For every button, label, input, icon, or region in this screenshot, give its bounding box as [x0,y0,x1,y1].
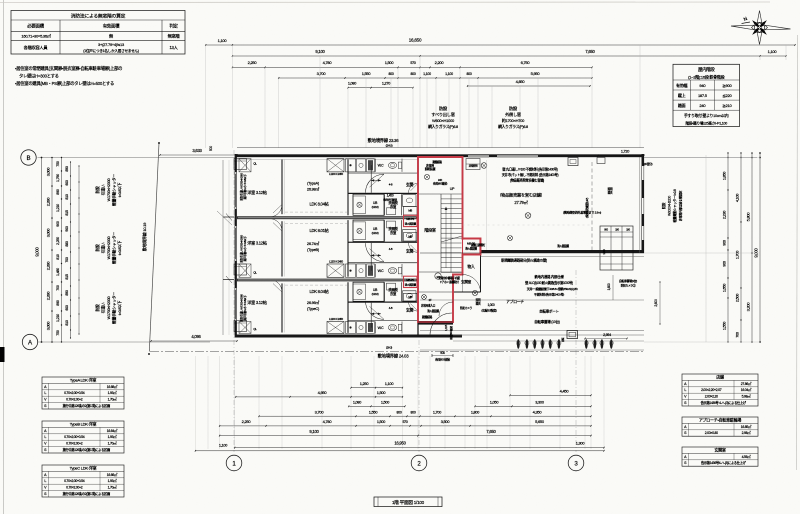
bottom dim row C left [349,405,405,407]
red mb boxes outline emphasis [404,221,418,233]
top wall window openings store [468,154,489,157]
grid circle 3 [568,455,584,471]
unit TypeC partition walls [281,283,283,332]
unit TypeB fixture row partitions [375,264,377,277]
balcony AC boxes [234,159,247,170]
unit TypeA floor edge line [285,211,347,213]
unit TypeC entry door arc [409,302,419,312]
left dimension chains [41,158,43,343]
site boundary bottom with label [150,351,644,353]
unit TypeC kitchen counter [327,321,344,333]
grid circle 2 [411,455,427,471]
fire code table [11,11,185,55]
bottom dim row G [235,447,604,449]
grid circle A [22,334,37,349]
bottom dim row E [220,425,591,427]
unit TypeA wc toilet room [403,195,417,207]
unit TypeA bedroom closet [239,159,251,172]
unit divider wall 1 [236,216,418,219]
unit TypeC wc toilet room [403,291,417,302]
left wall window openings [235,172,237,209]
store top small box [568,158,578,166]
grid column line 1 [233,150,235,452]
unit TypeC hall partition [370,303,372,328]
unit TypeC hall door arc [366,301,385,320]
unit TypeA partition walls [281,160,283,215]
store side entry arc [439,302,453,316]
stair treads [441,193,462,195]
indoor stair spec table [673,64,740,126]
store light symbols [481,163,487,169]
monoire storage room [463,254,481,256]
unit TypeA hall door arc [366,174,385,193]
unit TypeA entry door arc [409,183,419,193]
unit TypeB MB box [404,232,418,241]
balcony partition hatches [223,216,234,218]
unit TypeA hall partition [370,165,372,193]
store corner fixture box [466,159,480,170]
site boundary top with label [237,147,644,149]
unit TypeA bath UB [353,194,384,215]
stair lower texts [422,295,427,300]
dim 1720 store top [598,155,644,157]
stair landing lines [418,193,441,195]
drawing title block [374,497,442,507]
unit divider wall 2 [236,279,418,282]
wall under entrance room [418,322,453,325]
unit TypeB entry door arc [409,243,419,253]
right dim chain col 2 [740,153,742,342]
unit TypeA MB box [404,206,418,214]
grid circle 1 [226,455,242,471]
mb ps red box right of stair [463,239,481,255]
unit TypeB bedroom closet [239,264,251,277]
red outline stair highlight [418,157,481,322]
unit TypeC bedroom closet [239,321,251,333]
bottom dim row F [220,435,591,437]
unit TypeB kitchen counter [327,264,344,277]
entrance room 3C [418,321,453,323]
unit TypeB bedroom door arc [270,219,283,232]
bottom dim row B [236,396,403,398]
bicycle ground line [453,340,644,342]
store dashed partition [591,162,593,250]
dim 2954 [585,338,627,340]
stair shaft walls [417,157,419,335]
right dim chain col 3 [751,153,753,342]
top dimension lines [206,44,795,46]
area table TypeC [42,465,124,497]
site boundary line left slanted [149,143,159,352]
grid line B horizontal [38,157,238,159]
approach upper wall line [420,252,644,254]
unit TypeB wc toilet room [403,230,417,242]
store open floor [462,157,464,161]
area table store [682,374,758,406]
bottom dim row C right [475,405,591,407]
building left wall [235,154,237,338]
unit TypeC MB box [404,293,418,301]
grid column line 2 [418,340,420,452]
bottom dim row D [259,415,591,417]
area table approach [682,417,758,436]
bicycle row [516,339,520,349]
store bottom wall [481,250,645,253]
unit TypeC fixture row partitions [375,321,377,333]
building top wall [235,154,644,157]
grid circle B [21,150,36,165]
bottom dim row 4450 [510,394,591,396]
area table entrance [682,447,758,466]
dim 3633 top left [160,154,237,156]
store interior light line [486,160,488,250]
unit TypeA kitchen counter [327,159,344,172]
unit TypeA fixture row partitions [375,159,377,172]
building bottom wall units [235,335,462,338]
right extension lines [644,157,760,159]
unit TypeB floor edge line [285,222,347,224]
bottom extension lines [194,356,196,449]
dim 4096 bottom left [151,340,237,342]
entrance door arcs lower [463,275,481,293]
unit TypeC bath UB [353,282,384,301]
unit TypeC floor edge line [285,284,347,286]
stair break line [441,236,462,242]
bicycle stand square [567,331,578,339]
north compass rose [731,11,791,45]
unit TypeB bath UB [353,220,384,241]
MB PS red shaft box B-C [404,276,418,287]
unit TypeB hall door arc [366,243,385,262]
unit TypeB partition walls [281,221,283,276]
approach ground lines [420,299,644,301]
bottom dim row A [351,387,403,389]
grid line A horizontal [38,341,211,343]
right dim chain col 1 [727,153,729,342]
top dim extension lines [205,45,207,148]
balcony corner diagonal [217,211,232,225]
store interior column [597,158,605,164]
area table TypeB [42,421,124,453]
grid column line 3 [575,270,577,452]
scan edge artifact top [0,1,770,4]
unit TypeC bedroom door arc [270,280,283,293]
area table TypeA [42,377,124,409]
balcony strip left [222,160,224,335]
scan edge artifacts left [3,0,5,514]
unit TypeB hall partition [370,243,372,271]
store right wall [642,154,645,253]
right dim chain col 4 [759,153,761,342]
unit TypeA bedroom door arc [270,205,283,218]
dim 900 below boundary [432,355,453,357]
bike rack grid store corner [600,226,633,270]
MB PS red shaft box A-B [404,215,418,226]
